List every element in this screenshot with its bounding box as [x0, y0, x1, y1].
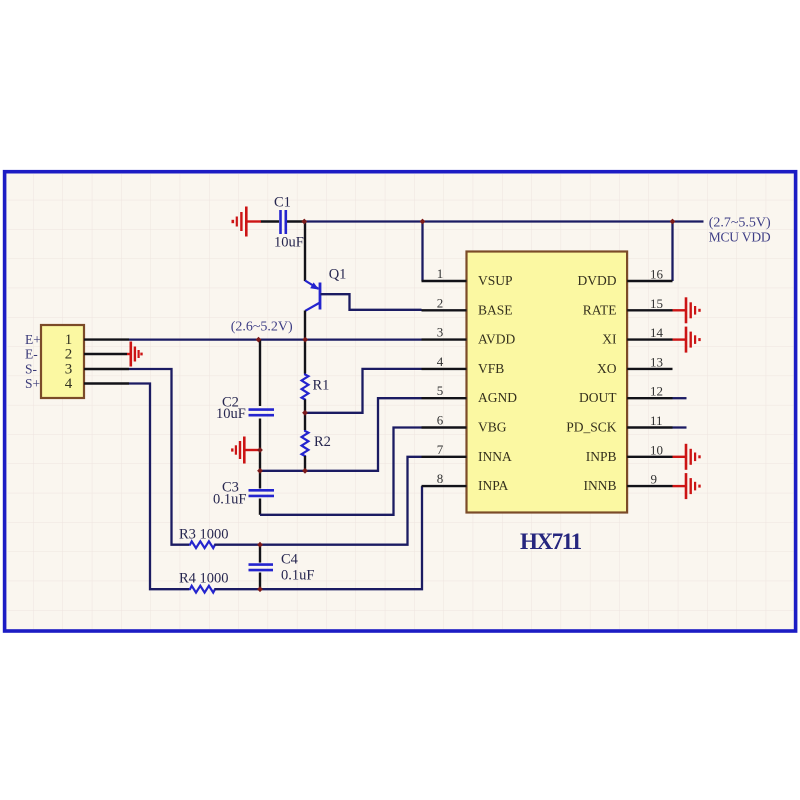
- svg-text:2: 2: [437, 295, 444, 310]
- svg-text:9: 9: [651, 472, 658, 487]
- svg-text:C4: C4: [281, 552, 299, 568]
- junction node C4 top on INNA rail: [257, 542, 263, 548]
- wire top VSUP rail: [304, 220, 704, 222]
- svg-text:MCU VDD: MCU VDD: [709, 229, 771, 244]
- svg-text:BASE: BASE: [478, 302, 513, 317]
- junction node C4 bottom on INPA rail: [257, 586, 263, 592]
- resistor R2: [304, 413, 306, 430]
- svg-text:S-: S-: [25, 361, 38, 376]
- svg-text:XI: XI: [602, 332, 617, 347]
- wire Q1 emitter vertical: [304, 222, 306, 282]
- svg-text:DOUT: DOUT: [579, 390, 617, 405]
- pin names left: [478, 273, 517, 493]
- wire C1 right lead: [287, 220, 305, 222]
- svg-text:12: 12: [650, 384, 663, 399]
- svg-text:R1: R1: [313, 378, 330, 394]
- svg-text:R2: R2: [314, 434, 331, 450]
- svg-text:15: 15: [650, 296, 663, 311]
- junction node ground stub at C2: [257, 447, 263, 453]
- svg-text:13: 13: [650, 354, 663, 369]
- wire AVDD rail: [129, 338, 422, 340]
- junction node R1-R2-VFB: [302, 410, 308, 416]
- svg-text:C1: C1: [274, 195, 291, 211]
- connector P1: [41, 325, 84, 398]
- svg-text:E+: E+: [25, 332, 41, 347]
- wire S+ to R4: [129, 384, 189, 590]
- junction node Q1 collector on AVDD rail: [302, 337, 308, 343]
- svg-text:8: 8: [437, 471, 444, 486]
- svg-text:XO: XO: [597, 361, 617, 376]
- wire R3 to pin7: [215, 457, 422, 545]
- svg-text:Q1: Q1: [329, 267, 347, 283]
- wire Q1 collector vertical: [304, 311, 306, 340]
- wire C2 bottom to AGND rail: [259, 419, 261, 471]
- svg-text:R3 1000: R3 1000: [179, 527, 229, 543]
- ground at RATE pin15: [673, 297, 700, 323]
- svg-text:INNA: INNA: [478, 449, 512, 464]
- svg-text:6: 6: [437, 413, 444, 428]
- ground at XI pin14: [673, 327, 700, 353]
- pin numbers left: [437, 266, 444, 486]
- svg-text:INNB: INNB: [584, 478, 617, 493]
- svg-text:4: 4: [437, 354, 444, 369]
- wire pin4 route: [305, 369, 422, 413]
- svg-text:2: 2: [65, 347, 73, 363]
- svg-text:INPB: INPB: [586, 449, 617, 464]
- wire S- to R3: [129, 369, 189, 545]
- capacitor C1: [281, 210, 286, 234]
- ground at INNB pin9: [673, 473, 700, 499]
- svg-text:R4 1000: R4 1000: [179, 571, 229, 587]
- svg-text:3: 3: [437, 325, 444, 340]
- IC left pin stubs: [422, 281, 467, 486]
- capacitor C3: [259, 471, 261, 489]
- IC U1 HX711 body: [467, 252, 628, 513]
- svg-text:VBG: VBG: [478, 420, 507, 435]
- wire pin1 branch from rail: [421, 222, 423, 282]
- wire AGND rail / pin5 route: [260, 398, 422, 471]
- pin names right: [566, 273, 617, 493]
- svg-text:0.1uF: 0.1uF: [281, 568, 314, 584]
- schematic frame: [5, 172, 796, 631]
- junction node DVDD branch on VSUP rail: [670, 219, 676, 225]
- svg-text:11: 11: [650, 413, 663, 428]
- wire Q1 base route to pin 2: [321, 294, 422, 310]
- wire DOUT: [673, 397, 687, 399]
- svg-text:HX711: HX711: [520, 529, 582, 554]
- svg-text:10: 10: [650, 442, 663, 457]
- svg-text:(2.7~5.5V): (2.7~5.5V): [709, 216, 771, 231]
- svg-text:5: 5: [437, 383, 444, 398]
- resistor R1: [304, 340, 306, 374]
- wire C2 top branch: [259, 340, 261, 406]
- svg-text:VSUP: VSUP: [478, 273, 513, 288]
- pin numbers right: [650, 267, 664, 487]
- svg-text:4: 4: [65, 376, 73, 392]
- svg-text:VFB: VFB: [478, 361, 504, 376]
- svg-text:RATE: RATE: [583, 302, 617, 317]
- svg-text:S+: S+: [25, 376, 40, 391]
- junction node C1-Q1 on VSUP rail: [301, 219, 307, 225]
- wire pin6 route: [260, 428, 422, 515]
- svg-text:16: 16: [650, 267, 664, 282]
- junction node pin1 branch on VSUP rail: [420, 219, 426, 225]
- svg-text:E-: E-: [25, 346, 38, 361]
- svg-text:10uF: 10uF: [216, 406, 246, 422]
- wire PD_SCK: [673, 426, 687, 428]
- resistor R3: [189, 541, 216, 548]
- ground at E-: [127, 342, 142, 367]
- transistor Q1: [305, 281, 320, 311]
- wire R4 to pin8: [215, 486, 423, 589]
- ground at C2/C3: [232, 437, 260, 464]
- svg-text:PD_SCK: PD_SCK: [566, 420, 617, 435]
- svg-text:1: 1: [437, 266, 444, 281]
- junction node R2 bottom on AGND rail: [302, 468, 308, 474]
- svg-text:14: 14: [650, 325, 664, 340]
- svg-text:10uF: 10uF: [274, 234, 304, 250]
- junction node C2 branch on AVDD rail: [256, 337, 262, 343]
- svg-text:DVDD: DVDD: [578, 273, 617, 288]
- capacitor C2: [249, 410, 275, 416]
- ground at INPB pin10: [673, 444, 700, 470]
- svg-text:(2.6~5.2V): (2.6~5.2V): [231, 320, 293, 335]
- capacitor C4: [259, 545, 261, 563]
- connector pin leads: [84, 340, 129, 384]
- ground at C1: [233, 207, 261, 237]
- svg-text:INPA: INPA: [478, 478, 509, 493]
- IC right pin stubs: [627, 281, 672, 486]
- svg-text:0.1uF: 0.1uF: [213, 492, 246, 508]
- junction node C2-C3 on AGND rail: [257, 468, 263, 474]
- wire DVDD branch from rail: [671, 222, 673, 282]
- svg-text:AVDD: AVDD: [478, 332, 516, 347]
- svg-text:AGND: AGND: [478, 390, 517, 405]
- svg-text:7: 7: [437, 442, 444, 457]
- resistor R4: [189, 586, 216, 593]
- wire C1 left lead: [261, 220, 280, 222]
